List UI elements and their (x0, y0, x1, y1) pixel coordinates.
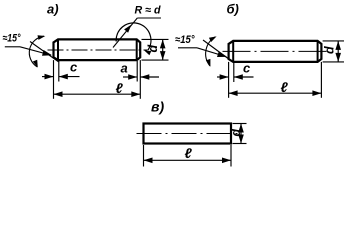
dim d (a) ext bottom (142, 59, 169, 61)
svg-text:c: c (243, 61, 251, 76)
dim l (c) arrow left (144, 158, 153, 164)
15deg leader shelf (a) (5, 46, 20, 48)
dim a (a) tail left (123, 76, 137, 78)
dim l (c) ext right (230, 145, 232, 167)
dim d (a) line (162, 39, 164, 60)
15deg leader shelf (b) (178, 47, 197, 49)
dim c (b) ext left (228, 62, 230, 98)
pin A right chamfer edge (136, 39, 138, 60)
dim c (b) arrow right (220, 74, 229, 80)
dim c (b) ext chamfer (233, 63, 235, 83)
svg-text:c: c (70, 60, 78, 75)
pin C outline (144, 124, 232, 144)
15deg construction diagonal (a) (30, 42, 59, 62)
dim d (b) ext top (323, 40, 344, 42)
dim l (a) line (54, 93, 141, 95)
dim c (b) tail left (217, 76, 229, 78)
R radius arc (116, 23, 151, 50)
dim a (a) arrow right (128, 74, 137, 80)
dim d (a) arrow up (160, 39, 166, 48)
svg-text:б): б) (227, 2, 239, 17)
dim d (c) ext bottom (233, 143, 247, 145)
dim c (a) ext left (53, 60, 55, 99)
R leader line (113, 18, 137, 48)
dim l (b) arrow left (229, 90, 238, 96)
dim l (b) arrow right (312, 90, 321, 96)
15deg arc top arrowhead (a) (38, 35, 46, 40)
pin A centerline (48, 49, 148, 51)
dim l (a) arrow right (131, 91, 140, 97)
15deg angle arc (b) (206, 37, 216, 66)
pin A outline (54, 39, 141, 60)
dim d (a) arrow down (160, 51, 166, 60)
R arc end tick (144, 50, 151, 55)
pin B outline (229, 41, 322, 62)
dim a (a) ext right (139, 60, 141, 99)
svg-text:d: d (146, 45, 160, 53)
svg-text:d: d (323, 46, 337, 54)
dim d (b) arrow up (335, 41, 341, 50)
dim c (a) arrow left (59, 74, 68, 80)
dim c (b) arrow left (234, 74, 243, 80)
pin C centerline (137, 133, 238, 135)
15deg arc top arrowhead (b) (209, 36, 217, 42)
R leader arrowhead (124, 25, 131, 33)
pin B right chamfer edge (317, 41, 319, 62)
svg-text:≈15°: ≈15° (3, 33, 21, 45)
dim d (c) arrow up (238, 124, 244, 133)
dim c (a) tail right (59, 76, 80, 78)
dim a (a) ext chamfer (136, 61, 138, 82)
15deg leader arrowhead (a) (42, 50, 52, 56)
dim l (b) ext right (320, 62, 322, 98)
15deg leader (b) (197, 48, 226, 57)
pin B centerline (223, 50, 329, 52)
pin A left chamfer edge (57, 39, 59, 60)
svg-text:a: a (121, 61, 128, 76)
dim l (a) arrow left (54, 91, 63, 97)
svg-text:R ≈ d: R ≈ d (135, 5, 161, 17)
dim l (b) line (229, 92, 322, 94)
R leader shelf (137, 17, 161, 19)
15deg arc bottom arrowhead (a) (33, 60, 38, 68)
dim d (c) ext top (233, 123, 247, 125)
dim c (a) arrow right (45, 74, 54, 80)
svg-text:а): а) (47, 2, 59, 17)
pin B left chamfer edge (232, 41, 234, 62)
15deg leader (a) (20, 47, 51, 55)
15deg construction diagonal (b) (203, 40, 234, 63)
15deg arc bottom arrowhead (b) (206, 59, 211, 67)
15deg angle arc (a) (29, 36, 44, 67)
dim d (b) line (337, 41, 339, 62)
dim d (c) line (240, 124, 242, 144)
svg-text:ℓ: ℓ (116, 80, 124, 96)
dim d (b) ext bottom (323, 61, 344, 63)
svg-text:в): в) (151, 99, 164, 115)
dim d (b) arrow down (335, 53, 341, 62)
svg-text:d: d (229, 129, 243, 137)
dim a (a) tail right (140, 76, 159, 78)
dim c (a) tail left (42, 76, 54, 78)
dim c (a) ext chamfer (58, 61, 60, 82)
dim d (a) ext top (142, 38, 169, 40)
dim l (c) arrow right (222, 158, 231, 164)
svg-text:ℓ: ℓ (185, 145, 193, 161)
svg-text:ℓ: ℓ (281, 79, 289, 95)
15deg leader arrowhead (b) (217, 51, 227, 57)
dim a (a) arrow left (140, 74, 149, 80)
dim l (c) ext left (143, 145, 145, 167)
dim c (b) tail right (234, 76, 254, 78)
svg-text:≈15°: ≈15° (175, 34, 195, 46)
dim d (c) arrow down (238, 135, 244, 144)
dim l (c) line (144, 159, 232, 161)
